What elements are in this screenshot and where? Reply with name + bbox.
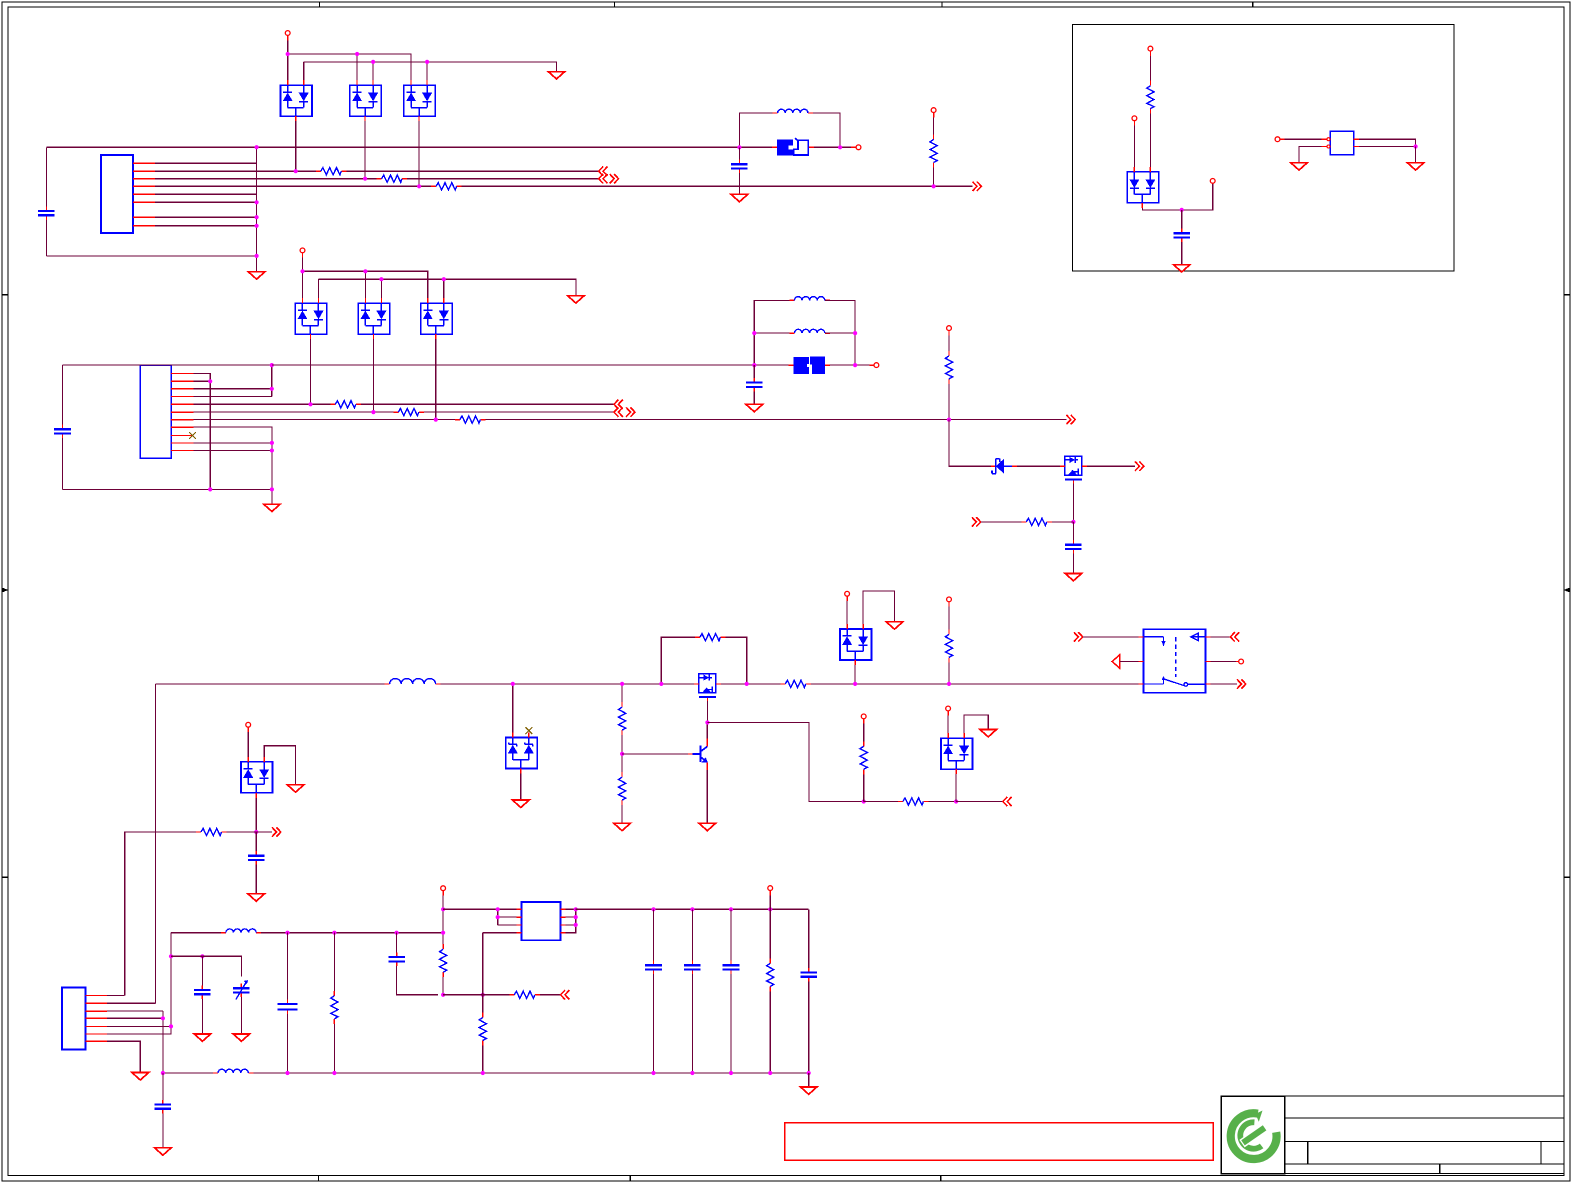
- junction: [161, 1071, 165, 1075]
- input arrow A1: [1112, 655, 1120, 669]
- wire node to C6: [1181, 210, 1183, 229]
- logo bar: [1243, 1128, 1265, 1143]
- resistor R22: [479, 1013, 486, 1046]
- border tick bottom 3: [940, 1176, 942, 1182]
- no-connect X1: [189, 432, 196, 439]
- wire J2.6 segment: [194, 411, 394, 413]
- off-page port chevron: [1066, 415, 1075, 424]
- power pin P15: [946, 706, 951, 711]
- junction: [379, 277, 383, 281]
- capacitor C1: [38, 206, 55, 220]
- wire riser D5 left: [364, 271, 366, 298]
- wire main net left: [156, 683, 385, 685]
- wire net A top row1: [288, 54, 411, 80]
- wire J1.7: [155, 216, 257, 218]
- wire R20 to fb net: [442, 977, 444, 995]
- wire J1.5: [155, 193, 257, 195]
- wire bottom net block1: [46, 255, 256, 257]
- wire to R22: [482, 995, 484, 1013]
- junction: [270, 441, 274, 445]
- junction: [441, 931, 445, 935]
- wire bottom net block2: [63, 488, 272, 490]
- power pin P5: [874, 363, 879, 368]
- junction: [752, 363, 756, 367]
- wire riser D4 right: [318, 279, 320, 298]
- wire P11 to R16: [863, 724, 865, 742]
- capacitor C10: [278, 999, 298, 1014]
- wire C2 to ground: [738, 173, 740, 194]
- junction: [395, 931, 399, 935]
- title block row line 3: [1285, 1163, 1564, 1165]
- junction: [300, 269, 304, 273]
- power pin P4: [300, 248, 305, 253]
- wire J1.3 to port: [407, 178, 599, 180]
- junction: [285, 1071, 289, 1075]
- junction: [768, 907, 772, 911]
- wire C11 to fb net: [397, 966, 439, 995]
- wire riser D4 left: [302, 271, 304, 298]
- junction: [285, 931, 289, 935]
- diode D12 (dual TVS): [941, 733, 973, 774]
- title block divider 1: [1307, 1142, 1309, 1165]
- resistor R18: [945, 629, 952, 662]
- wire R22 to rail: [482, 1046, 484, 1074]
- pin stub J1 pin 2: [133, 170, 155, 172]
- capacitor C9 arrow: [236, 982, 247, 1000]
- wire riser J4.5/6: [170, 933, 172, 1027]
- junction: [620, 752, 624, 756]
- off-page port chevron: [614, 400, 623, 409]
- wire node to pin: [840, 146, 851, 148]
- junction: [286, 52, 290, 56]
- ground G15: [513, 800, 530, 807]
- diode D10 (dual schottky): [506, 732, 537, 773]
- junction: [355, 52, 359, 56]
- border tick left 2: [2, 876, 8, 878]
- wire top net to U3: [443, 908, 516, 910]
- wire R4 to net: [933, 168, 935, 187]
- wire J2.6 to port: [424, 411, 614, 413]
- wire D9 bottom to net: [255, 798, 257, 832]
- wire J1.2 segment: [155, 170, 316, 172]
- pin stub U2.4: [1354, 138, 1359, 140]
- wire C13 to rail: [691, 974, 693, 1073]
- border tick bottom 1: [318, 1176, 320, 1182]
- wire J2.5 to port: [361, 403, 614, 405]
- wire D11 right pin to ground: [863, 591, 894, 624]
- wire top net block2 right: [272, 364, 755, 366]
- logo inner arc: [1240, 1122, 1261, 1148]
- junction: [752, 331, 756, 335]
- junction: [574, 923, 578, 927]
- resistor R7: [455, 416, 486, 423]
- wire P17 to top net: [442, 895, 444, 909]
- capacitor C8: [194, 985, 211, 999]
- wire main net mid: [441, 683, 694, 685]
- junction: [270, 487, 274, 491]
- wire U3 right bus: [566, 909, 576, 932]
- wire D1 bottom to net: [295, 121, 297, 171]
- wire U3 left bus: [497, 909, 499, 925]
- pin stub J1 pin 1: [133, 162, 155, 164]
- capacitor C14: [723, 961, 740, 975]
- off-page port chevron: [1074, 632, 1083, 641]
- pin stub J2 pin 3: [171, 388, 193, 390]
- pin stub P3: [933, 113, 935, 118]
- wire riser D5 right: [380, 279, 382, 298]
- wire J1.3 segment: [155, 178, 377, 180]
- capacitor C7: [248, 851, 265, 865]
- diode D4 (dual TVS): [295, 298, 327, 339]
- wire J2.8 riser: [194, 427, 272, 489]
- junction: [853, 363, 857, 367]
- wire gate net to port: [956, 801, 1003, 803]
- capacitor C4: [746, 378, 763, 392]
- wire C10 to rail: [287, 1014, 289, 1073]
- wire R23 to rail: [769, 991, 771, 1073]
- pin stub J4 pin 6: [86, 1033, 108, 1035]
- wire right edge drop: [808, 909, 810, 968]
- junction: [417, 184, 421, 188]
- title block logo cell: [1221, 1096, 1284, 1173]
- pin stub P15: [947, 711, 949, 716]
- pin stub U3 left 2: [517, 916, 522, 918]
- pin stub J2 pin 6: [171, 411, 193, 413]
- wire to L3: [754, 332, 789, 334]
- pin stub J4 pin 2: [86, 1002, 108, 1004]
- wire J4.3: [107, 1010, 163, 1012]
- wire to R13: [621, 684, 623, 702]
- wire J4.2: [107, 1002, 156, 1004]
- wire riser U3.4: [482, 933, 484, 995]
- junction: [705, 720, 709, 724]
- pin stub P1: [287, 35, 289, 40]
- capacitor C12: [645, 961, 662, 975]
- junction: [768, 1071, 772, 1075]
- junction: [169, 954, 173, 958]
- wire to L1 left: [739, 113, 772, 147]
- junction: [363, 269, 367, 273]
- component U2: [1330, 131, 1354, 155]
- wire P1 to net: [287, 41, 289, 55]
- capacitor C6: [1173, 229, 1190, 243]
- wire drop to C2: [738, 147, 740, 159]
- inductor L2: [789, 297, 829, 301]
- wire D10 bottom to ground: [520, 773, 522, 800]
- wire P10 to U2: [1285, 138, 1322, 140]
- junction: [947, 682, 951, 686]
- junction: [620, 682, 624, 686]
- wire feedback left: [661, 637, 695, 684]
- pin stub J2 pin 11: [171, 450, 193, 452]
- junction: [745, 682, 749, 686]
- pin stub J4 pin 3: [86, 1010, 108, 1012]
- power pin P6: [947, 326, 952, 331]
- resistor R12: [695, 634, 726, 641]
- junction: [511, 682, 515, 686]
- resistor R2: [377, 175, 408, 182]
- resistor R23: [767, 958, 774, 991]
- junction: [332, 931, 336, 935]
- wire U3.3: [498, 924, 517, 926]
- wire port to R9: [981, 521, 1022, 523]
- title block divider 2: [1540, 1142, 1542, 1165]
- wire riser J4.3/4: [162, 1011, 164, 1073]
- wire U2.2 to ground: [1299, 147, 1322, 163]
- diode D11 (dual TVS): [840, 624, 872, 665]
- logo outer arc: [0, 0, 1, 1]
- title block table: [1285, 1096, 1564, 1173]
- pin stub P8: [1133, 121, 1135, 126]
- wire R8 to net: [948, 384, 950, 420]
- off-page port chevron: [1003, 797, 1012, 806]
- power pin P7: [1148, 46, 1153, 51]
- pin stub U3 right 4: [561, 932, 566, 934]
- wire U3.4: [483, 932, 517, 934]
- resistor R14: [619, 772, 626, 805]
- off-page port chevron: [272, 827, 281, 836]
- wire D2 bottom to net: [364, 121, 366, 179]
- wire D12 right pin to ground: [964, 715, 988, 733]
- pin stub J2 pin 8: [171, 426, 193, 428]
- logo bar mask: [1242, 1127, 1265, 1143]
- wire main net right: [811, 683, 1139, 685]
- border tick bottom 2: [629, 1176, 631, 1182]
- wire J4.4: [107, 1017, 163, 1019]
- junction: [481, 1071, 485, 1075]
- wire J1.6: [155, 201, 257, 203]
- wire C1 to bottom: [45, 220, 47, 256]
- wire C14 to rail: [730, 974, 732, 1073]
- wire node to C7: [255, 832, 257, 851]
- wire top net block1: [46, 146, 772, 148]
- wire R9 to gate node: [1052, 521, 1074, 523]
- junction: [729, 1071, 733, 1075]
- wire net B row2 to ground: [319, 279, 576, 295]
- pin stub J1 pin 6: [133, 201, 155, 203]
- logo wedge: [1256, 1111, 1263, 1122]
- border tick top 3: [941, 2, 943, 7]
- ground G11: [614, 823, 631, 830]
- off-page port chevron: [626, 407, 635, 416]
- resistor R10: [1147, 81, 1154, 114]
- wire P15 to D12: [947, 716, 949, 734]
- wire C4 to ground: [753, 392, 755, 405]
- wire drop to C11: [396, 933, 398, 953]
- ground G14: [248, 894, 265, 901]
- wire L2 right riser: [825, 300, 855, 365]
- off-page port chevron: [1135, 462, 1144, 471]
- wire J2.11: [194, 450, 272, 452]
- resistor R1: [316, 168, 347, 175]
- pin stub P10: [1280, 138, 1285, 140]
- ferrite bead FB1 pair: [772, 138, 814, 155]
- wire Q2 gate down: [706, 701, 708, 722]
- ground G1: [548, 72, 565, 79]
- wire fb net: [443, 994, 478, 996]
- ground G17: [980, 730, 997, 737]
- title block row line 1: [1285, 1117, 1564, 1119]
- pin stub P17: [442, 891, 444, 896]
- wire riser D3 right: [426, 62, 428, 80]
- pin stub P7: [1149, 51, 1151, 56]
- wire net to port: [227, 831, 273, 833]
- junction: [1071, 520, 1075, 524]
- junction: [807, 1071, 811, 1075]
- pin stub J2 pin 9 (NC): [171, 434, 189, 436]
- resistor R13: [619, 702, 626, 735]
- title block divider 3: [1439, 1164, 1441, 1174]
- pin stub P12: [247, 727, 249, 732]
- pin stub P16: [1236, 661, 1239, 663]
- diode D6 (dual TVS): [421, 298, 453, 339]
- wire bead to node: [830, 364, 856, 366]
- wire P7 to R10: [1149, 56, 1151, 81]
- pin stub J2 pin 1: [171, 372, 193, 374]
- ground G12: [699, 823, 716, 830]
- wire riser D1 right: [303, 62, 305, 80]
- junction: [862, 799, 866, 803]
- junction: [574, 907, 578, 911]
- junction: [442, 277, 446, 281]
- wire C16 to ground: [162, 1113, 164, 1147]
- wire J2.10: [194, 442, 272, 444]
- wire net B top row1 to ground: [304, 62, 557, 72]
- wire node to pin: [1182, 183, 1213, 210]
- IC U3: [522, 902, 561, 940]
- wire drop to C8: [201, 956, 203, 985]
- ferrite bead FB2 pair: [789, 357, 830, 374]
- wire top net right: [576, 908, 809, 910]
- wire riser D2 right: [372, 62, 374, 80]
- wire drop to C4: [753, 365, 755, 378]
- signal pin P9: [1210, 179, 1215, 184]
- wire drop to C14: [730, 909, 732, 960]
- border tick left 1: [2, 294, 8, 296]
- signal pin P8: [1132, 116, 1137, 121]
- wire mid net right: [261, 932, 443, 934]
- wire C3 to bottom: [62, 438, 64, 489]
- junction: [947, 418, 951, 422]
- inductor L6: [213, 1069, 253, 1073]
- pin stub U2.3: [1354, 146, 1359, 148]
- wire rail to ground stub: [808, 1073, 810, 1087]
- junction: [169, 1024, 173, 1028]
- pin stub P18: [769, 891, 771, 896]
- capacitor C2: [731, 160, 748, 174]
- wire P14 to R18: [948, 607, 950, 630]
- junction: [371, 410, 375, 414]
- wire J2.4: [194, 395, 272, 397]
- diode D1 (dual TVS): [281, 80, 313, 121]
- wire riser to D10: [512, 684, 514, 733]
- pin stub J1 pin 5: [133, 193, 155, 195]
- junction: [254, 830, 258, 834]
- junction: [270, 387, 274, 391]
- ground G19: [194, 1034, 211, 1041]
- resistor R21: [509, 991, 540, 998]
- wire left drop to C1: [45, 147, 47, 206]
- junction: [496, 907, 500, 911]
- inductor L3: [789, 329, 829, 333]
- wire bead to node: [814, 146, 840, 148]
- junction: [690, 907, 694, 911]
- wire riser D6 right: [443, 279, 445, 298]
- wire C9 to ground: [240, 997, 242, 1033]
- resistor R9: [1021, 518, 1052, 525]
- pin stub U3 right 1: [561, 908, 566, 910]
- wire to ground stub: [271, 489, 273, 504]
- ground G2: [248, 272, 265, 279]
- wire fb net 2: [478, 994, 510, 996]
- wire R19 to rail: [333, 1024, 335, 1073]
- pin stub J1 pin 8: [133, 225, 155, 227]
- border tick top 2: [613, 2, 615, 7]
- wire riser D1 left: [287, 54, 289, 80]
- off-page port chevron: [599, 167, 608, 176]
- ground G8: [1173, 265, 1190, 272]
- pin stub P13: [846, 596, 848, 601]
- wire D4 bottom to net: [310, 339, 312, 404]
- wire J4.6: [107, 1026, 171, 1034]
- wire riser to L2: [754, 300, 789, 365]
- junction: [651, 907, 655, 911]
- ground G3: [731, 194, 748, 201]
- resistor R19: [331, 991, 338, 1024]
- pin stub U3 left 3: [517, 924, 522, 926]
- resistor R11: [780, 680, 811, 687]
- pin circle U2.2: [1327, 145, 1330, 148]
- resistor R16: [860, 741, 867, 774]
- pin stub J2 pin 5: [171, 403, 193, 405]
- wire J1.2 to port: [346, 170, 598, 172]
- wire U2.4 right: [1359, 139, 1416, 146]
- wire U3 right bus top: [566, 908, 576, 910]
- pin stub J2 pin 10: [171, 442, 193, 444]
- wire P3 to R4: [933, 117, 935, 134]
- wire R14 to ground: [621, 805, 623, 823]
- wire drop to C12: [653, 909, 655, 960]
- junction: [737, 145, 741, 149]
- junction: [255, 254, 259, 258]
- wire J2.2: [194, 380, 211, 382]
- wire J4.1: [107, 994, 125, 996]
- junction: [255, 200, 259, 204]
- wire bus right of J1: [256, 147, 258, 256]
- wire P18 to top net: [769, 895, 771, 909]
- off-page port chevron: [610, 174, 619, 183]
- ground G4: [568, 296, 585, 303]
- wire drop to C13: [691, 909, 693, 960]
- power pin P17: [441, 886, 446, 891]
- ground G16: [886, 622, 903, 629]
- wire gate net segment 2: [928, 801, 956, 803]
- inductor L5: [221, 929, 261, 933]
- junction: [332, 1071, 336, 1075]
- transistor Q2 (MOSFET): [694, 674, 721, 702]
- junction: [932, 184, 936, 188]
- wire branch to D7: [949, 420, 991, 467]
- wire gate node to C5: [1072, 522, 1074, 540]
- junction: [294, 169, 298, 173]
- border arrow left: [2, 588, 9, 593]
- junction: [853, 682, 857, 686]
- wire D11 bottom to main net: [854, 665, 856, 684]
- wire P8 to D8: [1133, 126, 1135, 167]
- wire node to R14: [621, 754, 623, 772]
- ground G5: [264, 504, 281, 511]
- capacitor C15: [800, 968, 817, 982]
